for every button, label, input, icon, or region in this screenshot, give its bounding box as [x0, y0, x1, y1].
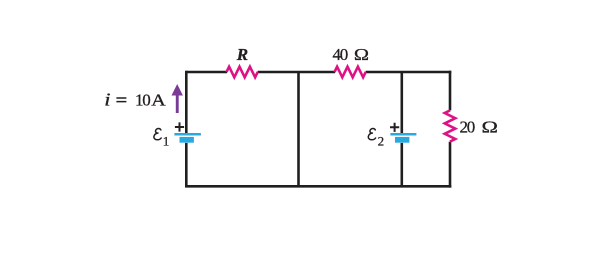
svg-text:40: 40 [333, 45, 348, 64]
svg-text:20: 20 [460, 117, 475, 136]
svg-text:2: 2 [378, 134, 385, 149]
wire E2 branch lower [400, 143, 403, 186]
wire left branch lower [185, 143, 188, 186]
svg-text:i: i [104, 90, 111, 109]
svg-text:A: A [151, 91, 166, 110]
svg-text:R: R [236, 45, 248, 64]
resistor 40ohm value label [333, 45, 370, 65]
battery E2 label script E [368, 129, 375, 140]
wire top-middle segment [258, 71, 335, 74]
svg-text:1: 1 [163, 133, 170, 148]
resistor 20ohm [445, 110, 456, 141]
wire right branch lower [449, 142, 452, 188]
wire bottom [185, 185, 451, 188]
battery E1 top plate [174, 133, 201, 136]
current arrow [172, 84, 183, 113]
current value label equals [116, 98, 126, 102]
battery E2 top plate [390, 133, 416, 136]
svg-text:Ω: Ω [354, 45, 369, 64]
resistor R [227, 67, 258, 78]
resistor 40ohm [335, 67, 366, 78]
battery E1 bottom plate [180, 137, 194, 143]
battery E1 label script E [154, 129, 161, 140]
battery E2 bottom plate [395, 137, 409, 143]
svg-text:10: 10 [135, 91, 150, 110]
resistor 20ohm value label [460, 117, 498, 136]
wire top-right segment [366, 71, 452, 74]
wire top-left segment [186, 71, 227, 74]
battery E1 plus sign [175, 122, 184, 131]
svg-text:Ω: Ω [482, 118, 498, 137]
wire middle branch [297, 72, 300, 186]
battery E2 plus sign [390, 123, 399, 132]
wire E2 branch upper [400, 72, 403, 133]
wire left branch upper [185, 71, 188, 133]
wire right branch upper [449, 71, 452, 111]
